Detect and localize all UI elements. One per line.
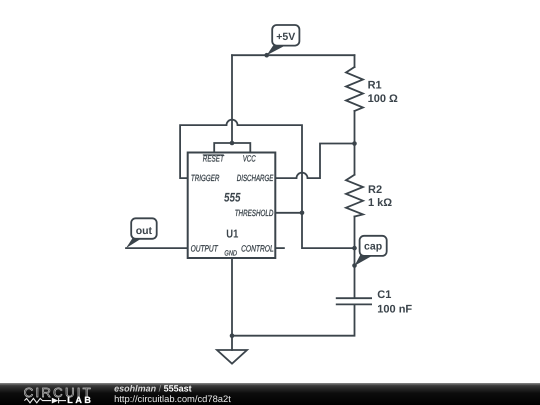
svg-text:C1: C1 [377, 289, 391, 301]
svg-text:CONTROL: CONTROL [241, 244, 274, 254]
svg-text:TRIGGER: TRIGGER [191, 173, 220, 183]
svg-text:OUTPUT: OUTPUT [191, 244, 219, 254]
svg-text:http://circuitlab.com/cd78a2t: http://circuitlab.com/cd78a2t [114, 393, 231, 404]
svg-text:1 kΩ: 1 kΩ [368, 197, 392, 209]
svg-text:THRESHOLD: THRESHOLD [235, 208, 274, 218]
svg-text:esohlman / 555ast: esohlman / 555ast [114, 384, 192, 394]
svg-text:R1: R1 [368, 79, 382, 91]
svg-text:VCC: VCC [243, 153, 256, 163]
svg-text:DISCHARGE: DISCHARGE [237, 173, 274, 183]
svg-text:555: 555 [224, 191, 241, 205]
svg-text:100 nF: 100 nF [377, 304, 412, 316]
svg-text:100 Ω: 100 Ω [368, 93, 398, 105]
svg-text:U1: U1 [226, 228, 238, 240]
svg-text:R2: R2 [368, 184, 382, 196]
svg-text:out: out [136, 225, 153, 237]
svg-text:LAB: LAB [67, 395, 91, 405]
svg-text:+5V: +5V [276, 31, 295, 43]
svg-text:GND: GND [224, 248, 237, 257]
svg-text:cap: cap [364, 240, 382, 252]
